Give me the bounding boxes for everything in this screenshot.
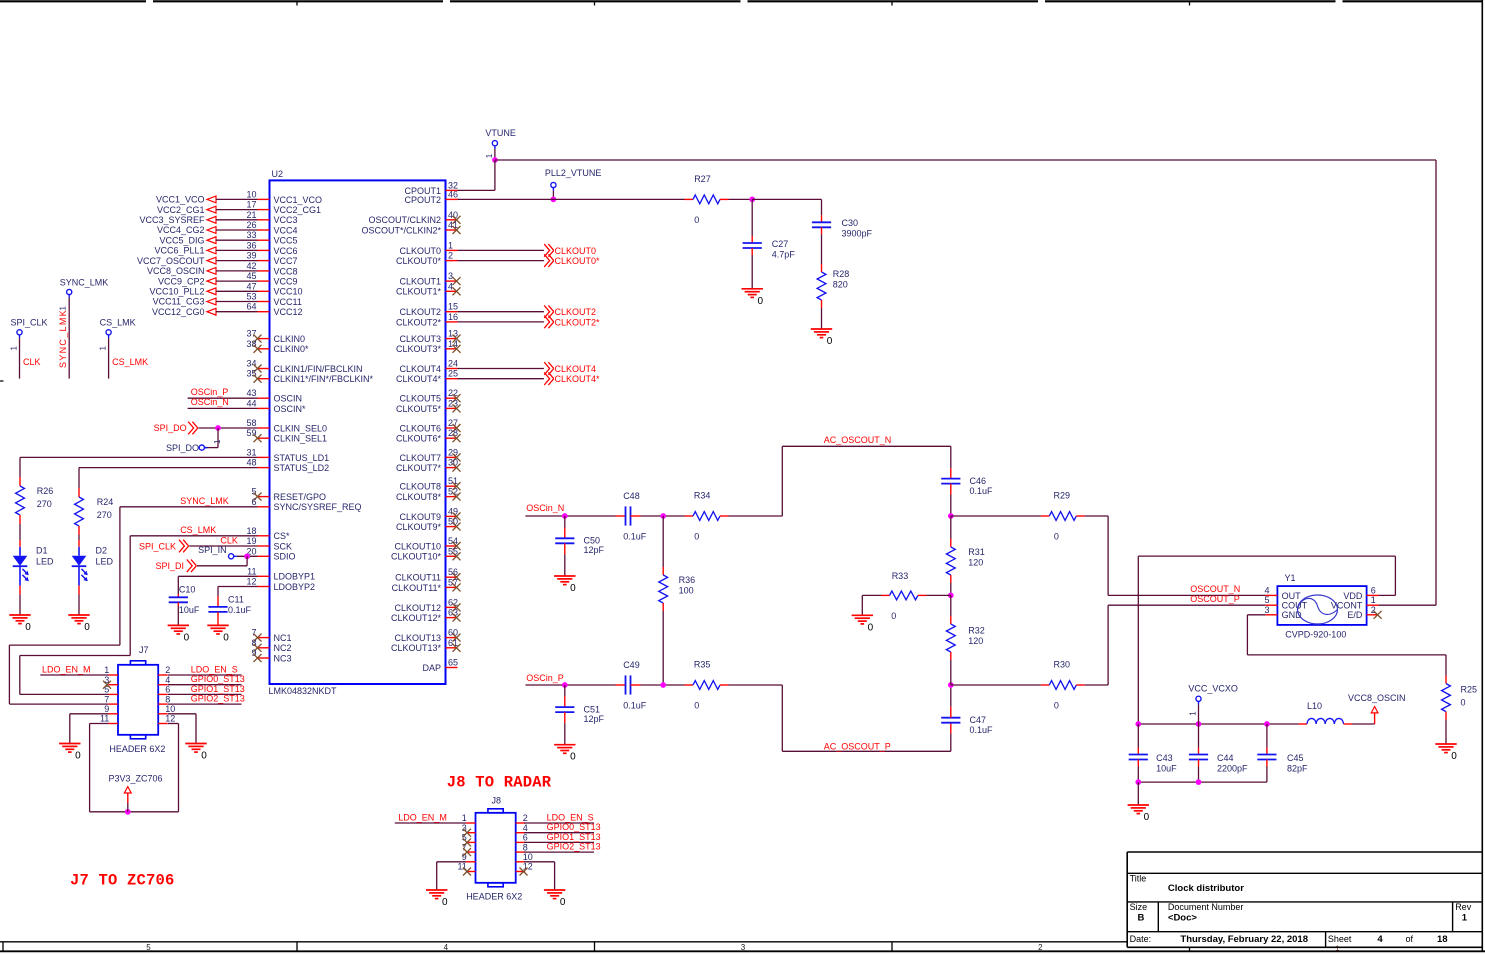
- svg-text:43: 43: [246, 388, 256, 398]
- svg-text:CLKIN1*/FIN*/FBCLKIN*: CLKIN1*/FIN*/FBCLKIN*: [274, 374, 374, 384]
- svg-text:LDO_EN_S: LDO_EN_S: [191, 664, 238, 674]
- svg-text:2200pF: 2200pF: [1217, 764, 1248, 774]
- svg-text:0: 0: [1054, 532, 1059, 542]
- svg-text:CLKOUT12*: CLKOUT12*: [391, 613, 442, 623]
- svg-text:1: 1: [9, 346, 18, 351]
- svg-text:VCC3_SYSREF: VCC3_SYSREF: [139, 215, 205, 225]
- svg-text:U2: U2: [272, 169, 284, 179]
- svg-text:CLKOUT0: CLKOUT0: [555, 246, 597, 256]
- svg-text:100: 100: [679, 585, 694, 595]
- svg-text:0: 0: [827, 336, 833, 347]
- svg-text:GPIO2_ST13: GPIO2_ST13: [191, 694, 245, 704]
- svg-text:35: 35: [246, 369, 256, 379]
- svg-text:CS_LMK: CS_LMK: [180, 525, 216, 535]
- svg-text:58: 58: [246, 418, 256, 428]
- svg-text:2: 2: [523, 813, 528, 823]
- svg-text:56: 56: [448, 567, 458, 577]
- svg-text:HEADER 6X2: HEADER 6X2: [109, 744, 165, 754]
- svg-text:CVPD-920-100: CVPD-920-100: [1285, 630, 1346, 640]
- svg-text:270: 270: [37, 499, 52, 509]
- svg-text:C50: C50: [584, 536, 601, 546]
- svg-text:0: 0: [1461, 697, 1466, 707]
- svg-text:DAP: DAP: [422, 663, 441, 673]
- svg-text:0: 0: [694, 532, 699, 542]
- svg-text:VCC_VCXO: VCC_VCXO: [1188, 683, 1238, 693]
- svg-text:SYNC_LMK: SYNC_LMK: [58, 309, 68, 368]
- svg-text:21: 21: [246, 210, 256, 220]
- svg-text:Thursday, February 22, 2018: Thursday, February 22, 2018: [1180, 934, 1308, 945]
- svg-text:CLKOUT8: CLKOUT8: [399, 482, 441, 492]
- svg-text:52: 52: [448, 487, 458, 497]
- svg-text:E/D: E/D: [1347, 610, 1363, 620]
- svg-text:R25: R25: [1461, 685, 1478, 695]
- svg-text:42: 42: [246, 261, 256, 271]
- svg-text:11: 11: [247, 566, 256, 576]
- svg-text:0: 0: [758, 296, 764, 307]
- svg-text:CS_LMK: CS_LMK: [112, 357, 148, 367]
- svg-text:CLKOUT1: CLKOUT1: [399, 277, 441, 287]
- svg-text:4: 4: [444, 943, 449, 952]
- svg-text:0: 0: [25, 622, 31, 633]
- svg-text:R33: R33: [892, 571, 909, 581]
- svg-text:PLL2_VTUNE: PLL2_VTUNE: [545, 168, 602, 178]
- svg-text:3900pF: 3900pF: [842, 228, 873, 238]
- svg-text:LDOBYP2: LDOBYP2: [274, 582, 316, 592]
- svg-text:4: 4: [165, 675, 170, 685]
- svg-text:48: 48: [246, 458, 256, 468]
- svg-text:33: 33: [246, 230, 256, 240]
- svg-text:J8: J8: [492, 796, 502, 806]
- svg-text:CLKOUT12: CLKOUT12: [394, 603, 441, 613]
- svg-text:4: 4: [523, 823, 528, 833]
- svg-text:OSCin_N: OSCin_N: [526, 503, 564, 513]
- svg-text:31: 31: [246, 447, 256, 457]
- svg-text:SPI_CLK: SPI_CLK: [139, 541, 176, 551]
- svg-text:C10: C10: [179, 585, 196, 595]
- svg-text:0.1uF: 0.1uF: [623, 701, 647, 711]
- svg-text:34: 34: [246, 359, 256, 369]
- svg-text:6: 6: [523, 833, 528, 843]
- svg-text:0.1uF: 0.1uF: [970, 486, 994, 496]
- svg-text:120: 120: [968, 636, 983, 646]
- svg-text:23: 23: [448, 398, 458, 408]
- svg-text:37: 37: [246, 329, 256, 339]
- svg-text:OSCin_P: OSCin_P: [526, 673, 564, 683]
- svg-text:1: 1: [1188, 711, 1197, 716]
- svg-text:65: 65: [448, 658, 458, 668]
- svg-text:7: 7: [104, 694, 109, 704]
- svg-text:30: 30: [448, 458, 458, 468]
- svg-text:1: 1: [104, 665, 109, 675]
- svg-text:1: 1: [462, 813, 467, 823]
- svg-text:SYNC_LMK: SYNC_LMK: [60, 278, 109, 288]
- svg-text:R31: R31: [968, 547, 985, 557]
- svg-text:CLKIN0: CLKIN0: [274, 334, 306, 344]
- svg-text:0: 0: [570, 752, 576, 763]
- svg-text:OSCOUT_P: OSCOUT_P: [1190, 594, 1240, 604]
- svg-text:SPI_CLK: SPI_CLK: [11, 318, 48, 328]
- svg-text:OSCOUT*/CLKIN2*: OSCOUT*/CLKIN2*: [361, 225, 441, 235]
- svg-text:4: 4: [1377, 934, 1383, 945]
- svg-text:16: 16: [448, 312, 458, 322]
- svg-text:Size: Size: [1130, 902, 1148, 912]
- svg-text:C11: C11: [228, 595, 244, 605]
- svg-text:Document Number: Document Number: [1168, 902, 1244, 912]
- svg-text:49: 49: [448, 506, 458, 516]
- svg-text:CLKOUT5*: CLKOUT5*: [396, 404, 442, 414]
- svg-text:OSCIN: OSCIN: [274, 394, 303, 404]
- svg-text:VCC10: VCC10: [274, 287, 303, 297]
- svg-text:VCC1_VCO: VCC1_VCO: [274, 195, 323, 205]
- svg-text:SPI_DI: SPI_DI: [155, 561, 184, 571]
- svg-text:0: 0: [184, 632, 190, 643]
- svg-text:8: 8: [165, 694, 170, 704]
- svg-text:Clock distributor: Clock distributor: [1168, 883, 1244, 894]
- svg-text:0.1uF: 0.1uF: [970, 725, 994, 735]
- svg-text:NC1: NC1: [274, 633, 292, 643]
- svg-text:VCC6: VCC6: [274, 246, 298, 256]
- svg-text:VCC8: VCC8: [274, 266, 298, 276]
- svg-text:0: 0: [1451, 751, 1457, 762]
- svg-text:CLKIN_SEL0: CLKIN_SEL0: [274, 423, 328, 433]
- svg-text:STATUS_LD1: STATUS_LD1: [274, 453, 330, 463]
- svg-text:SPI_DO: SPI_DO: [166, 443, 199, 453]
- svg-text:COUT: COUT: [1282, 601, 1308, 611]
- svg-text:CLKIN0*: CLKIN0*: [274, 344, 310, 354]
- svg-text:Rev: Rev: [1455, 902, 1472, 912]
- svg-text:VCC10_PLL2: VCC10_PLL2: [149, 287, 204, 297]
- svg-text:R28: R28: [833, 269, 850, 279]
- svg-text:270: 270: [97, 510, 112, 520]
- svg-text:820: 820: [833, 279, 848, 289]
- svg-text:CLKOUT0*: CLKOUT0*: [396, 256, 442, 266]
- svg-text:of: of: [1406, 934, 1414, 944]
- svg-text:6: 6: [251, 497, 256, 507]
- svg-text:LDO_EN_S: LDO_EN_S: [547, 812, 594, 822]
- svg-text:1: 1: [213, 439, 222, 444]
- svg-text:18: 18: [246, 526, 256, 536]
- svg-text:SCK: SCK: [274, 541, 293, 551]
- svg-text:STATUS_LD2: STATUS_LD2: [274, 463, 330, 473]
- svg-text:14: 14: [448, 339, 458, 349]
- svg-text:40: 40: [448, 210, 458, 220]
- svg-text:C51: C51: [584, 704, 601, 714]
- svg-text:VTUNE: VTUNE: [485, 128, 516, 138]
- svg-text:3: 3: [741, 943, 746, 952]
- svg-text:82pF: 82pF: [1287, 764, 1308, 774]
- svg-text:CLKOUT10*: CLKOUT10*: [391, 552, 442, 562]
- svg-text:VCC5: VCC5: [274, 236, 298, 246]
- svg-text:CLKOUT8*: CLKOUT8*: [396, 492, 442, 502]
- svg-text:0: 0: [223, 632, 229, 643]
- svg-text:R35: R35: [694, 660, 711, 670]
- svg-text:19: 19: [246, 536, 256, 546]
- svg-text:GPIO2_ST13: GPIO2_ST13: [547, 842, 601, 852]
- svg-text:CLKOUT9*: CLKOUT9*: [396, 522, 442, 532]
- svg-text:SDIO: SDIO: [274, 552, 296, 562]
- svg-text:64: 64: [246, 302, 256, 312]
- svg-text:CLKOUT13*: CLKOUT13*: [391, 643, 442, 653]
- svg-text:CLKOUT5: CLKOUT5: [399, 394, 441, 404]
- svg-text:OSCIN*: OSCIN*: [274, 404, 307, 414]
- svg-text:12pF: 12pF: [584, 545, 605, 555]
- svg-text:13: 13: [448, 329, 458, 339]
- svg-text:61: 61: [448, 638, 458, 648]
- svg-text:120: 120: [968, 557, 983, 567]
- svg-text:SYNC_LMK: SYNC_LMK: [180, 496, 229, 506]
- svg-text:CLKIN_SEL1: CLKIN_SEL1: [274, 434, 328, 444]
- svg-text:4.7pF: 4.7pF: [772, 249, 796, 259]
- svg-text:CLKOUT7: CLKOUT7: [399, 453, 441, 463]
- svg-text:C46: C46: [970, 476, 987, 486]
- svg-text:Sheet: Sheet: [1328, 934, 1352, 944]
- svg-text:CPOUT2: CPOUT2: [404, 195, 441, 205]
- svg-text:NC3: NC3: [274, 653, 292, 663]
- svg-text:0: 0: [868, 622, 874, 633]
- svg-text:CLKOUT2: CLKOUT2: [555, 307, 597, 317]
- svg-text:0: 0: [694, 701, 699, 711]
- svg-text:VCC2_CG1: VCC2_CG1: [157, 205, 205, 215]
- svg-text:CLKOUT11*: CLKOUT11*: [392, 583, 442, 593]
- svg-text:1: 1: [1371, 595, 1376, 605]
- svg-text:15: 15: [448, 302, 458, 312]
- svg-text:R26: R26: [37, 486, 54, 496]
- svg-text:CLKOUT11: CLKOUT11: [395, 573, 441, 583]
- svg-text:GND: GND: [1282, 610, 1303, 620]
- svg-text:J7: J7: [139, 645, 149, 655]
- svg-text:5: 5: [146, 943, 151, 952]
- svg-text:R29: R29: [1054, 491, 1071, 501]
- svg-text:38: 38: [246, 339, 256, 349]
- svg-text:R27: R27: [694, 174, 711, 184]
- svg-text:0: 0: [442, 897, 448, 908]
- svg-text:C30: C30: [842, 218, 859, 228]
- svg-text:4: 4: [448, 281, 453, 291]
- svg-text:6: 6: [165, 685, 170, 695]
- svg-text:28: 28: [448, 428, 458, 438]
- svg-text:3: 3: [448, 271, 453, 281]
- svg-text:RESET/GPO: RESET/GPO: [274, 492, 327, 502]
- svg-text:NC2: NC2: [274, 643, 292, 653]
- svg-text:CS_LMK: CS_LMK: [100, 318, 136, 328]
- svg-text:CLKOUT7*: CLKOUT7*: [396, 463, 442, 473]
- svg-text:CLKOUT9: CLKOUT9: [399, 512, 441, 522]
- svg-text:9: 9: [104, 704, 109, 714]
- svg-text:2: 2: [165, 665, 170, 675]
- svg-text:46: 46: [448, 189, 458, 199]
- svg-text:53: 53: [246, 292, 256, 302]
- svg-text:1: 1: [448, 240, 453, 250]
- svg-text:VCC11_CG3: VCC11_CG3: [153, 297, 205, 307]
- svg-text:VCC3: VCC3: [274, 215, 298, 225]
- svg-text:R36: R36: [679, 575, 696, 585]
- svg-text:VCC9: VCC9: [274, 277, 298, 287]
- svg-text:0: 0: [75, 751, 81, 762]
- svg-text:0: 0: [1054, 701, 1059, 711]
- svg-text:OSCOUT_N: OSCOUT_N: [1190, 584, 1240, 594]
- svg-text:R32: R32: [968, 626, 985, 636]
- svg-text:50: 50: [448, 517, 458, 527]
- svg-text:CLKIN1/FIN/FBCLKIN: CLKIN1/FIN/FBCLKIN: [274, 364, 363, 374]
- svg-text:39: 39: [246, 251, 256, 261]
- svg-text:Date:: Date:: [1130, 934, 1152, 944]
- svg-text:CLKOUT0: CLKOUT0: [399, 246, 441, 256]
- svg-text:C49: C49: [623, 660, 640, 670]
- svg-text:45: 45: [246, 271, 256, 281]
- svg-text:C45: C45: [1287, 753, 1304, 763]
- svg-text:0: 0: [1144, 812, 1150, 823]
- svg-text:CLKOUT2*: CLKOUT2*: [555, 317, 601, 327]
- svg-text:VCC8_OSCIN: VCC8_OSCIN: [1348, 693, 1406, 703]
- svg-text:D1: D1: [36, 545, 48, 555]
- svg-text:59: 59: [246, 428, 256, 438]
- svg-text:CLKOUT2*: CLKOUT2*: [396, 317, 442, 327]
- svg-text:VCC9_CP2: VCC9_CP2: [158, 276, 205, 286]
- svg-text:0: 0: [201, 751, 207, 762]
- svg-text:0: 0: [891, 611, 896, 621]
- svg-text:60: 60: [448, 628, 458, 638]
- svg-text:LDOBYP1: LDOBYP1: [274, 572, 316, 582]
- svg-text:63: 63: [448, 608, 458, 618]
- svg-text:CLKOUT3*: CLKOUT3*: [396, 344, 442, 354]
- svg-text:10: 10: [165, 704, 175, 714]
- svg-text:24: 24: [448, 359, 458, 369]
- svg-text:CLKOUT1*: CLKOUT1*: [396, 287, 442, 297]
- svg-text:VCC7: VCC7: [274, 256, 298, 266]
- svg-text:CLKOUT4: CLKOUT4: [399, 364, 441, 374]
- svg-text:CLKOUT4: CLKOUT4: [555, 364, 597, 374]
- svg-text:1: 1: [58, 306, 67, 311]
- svg-text:OSCOUT/CLKIN2: OSCOUT/CLKIN2: [368, 215, 441, 225]
- svg-text:CLK: CLK: [23, 357, 41, 367]
- svg-text:17: 17: [246, 200, 256, 210]
- svg-text:B: B: [1138, 912, 1145, 923]
- svg-text:R24: R24: [97, 497, 114, 507]
- svg-text:8: 8: [523, 842, 528, 852]
- svg-text:CLKOUT13: CLKOUT13: [394, 633, 441, 643]
- svg-text:18: 18: [1437, 934, 1448, 945]
- svg-text:GPIO0_ST13: GPIO0_ST13: [191, 674, 245, 684]
- svg-text:VCC7_OSCOUT: VCC7_OSCOUT: [137, 256, 205, 266]
- svg-text:VCC1_VCO: VCC1_VCO: [156, 195, 205, 205]
- svg-text:0: 0: [694, 215, 699, 225]
- svg-text:VDD: VDD: [1343, 591, 1363, 601]
- svg-text:AC_OSCOUT_P: AC_OSCOUT_P: [824, 742, 891, 752]
- svg-text:CLKOUT0*: CLKOUT0*: [555, 256, 601, 266]
- svg-text:3: 3: [1264, 605, 1269, 615]
- svg-text:5: 5: [1264, 595, 1269, 605]
- svg-text:12: 12: [165, 714, 175, 724]
- svg-text:CLKOUT6*: CLKOUT6*: [396, 434, 442, 444]
- svg-text:CLKOUT4*: CLKOUT4*: [555, 374, 601, 384]
- svg-text:VCONT: VCONT: [1331, 601, 1363, 611]
- svg-text:OSCin_N: OSCin_N: [191, 397, 229, 407]
- svg-text:2: 2: [1371, 605, 1376, 615]
- svg-text:1: 1: [98, 346, 107, 351]
- svg-text:SYNC/SYSREF_REQ: SYNC/SYSREF_REQ: [274, 502, 362, 512]
- svg-text:VCC4: VCC4: [274, 225, 298, 235]
- svg-text:VCC8_OSCIN: VCC8_OSCIN: [147, 266, 205, 276]
- svg-text:C27: C27: [772, 239, 789, 249]
- svg-text:26: 26: [246, 220, 256, 230]
- svg-text:L10: L10: [1307, 701, 1322, 711]
- svg-text:CLKOUT3: CLKOUT3: [399, 334, 441, 344]
- svg-text:C44: C44: [1217, 753, 1234, 763]
- svg-text:VCC12: VCC12: [274, 307, 303, 317]
- svg-text:55: 55: [448, 546, 458, 556]
- svg-text:J8 TO RADAR: J8 TO RADAR: [447, 774, 552, 792]
- svg-text:36: 36: [246, 240, 256, 250]
- svg-text:0: 0: [560, 897, 566, 908]
- svg-text:R30: R30: [1054, 660, 1071, 670]
- svg-text:D2: D2: [96, 545, 108, 555]
- svg-text:VCC12_CG0: VCC12_CG0: [152, 307, 205, 317]
- svg-text:CLKOUT10: CLKOUT10: [394, 541, 441, 551]
- svg-text:Title: Title: [1130, 874, 1147, 884]
- svg-text:GPIO1_ST13: GPIO1_ST13: [191, 684, 245, 694]
- svg-text:0.1uF: 0.1uF: [228, 605, 252, 615]
- svg-text:4: 4: [1264, 585, 1269, 595]
- svg-text:2: 2: [448, 251, 453, 261]
- svg-text:VCC5_DIG: VCC5_DIG: [159, 235, 204, 245]
- svg-text:GPIO0_ST13: GPIO0_ST13: [547, 822, 601, 832]
- svg-text:AC_OSCOUT_N: AC_OSCOUT_N: [824, 435, 892, 445]
- svg-text:1: 1: [485, 153, 494, 158]
- svg-text:62: 62: [448, 597, 458, 607]
- svg-text:11: 11: [100, 714, 109, 724]
- svg-text:12: 12: [246, 577, 256, 587]
- svg-text:0.1uF: 0.1uF: [623, 532, 647, 542]
- svg-text:47: 47: [246, 281, 256, 291]
- svg-text:P3V3_ZC706: P3V3_ZC706: [109, 774, 163, 784]
- svg-text:10uF: 10uF: [1156, 764, 1177, 774]
- svg-text:10: 10: [523, 852, 533, 862]
- svg-text:1: 1: [1462, 912, 1468, 923]
- svg-text:<Doc>: <Doc>: [1168, 912, 1197, 923]
- svg-text:12pF: 12pF: [584, 714, 605, 724]
- svg-text:GPIO1_ST13: GPIO1_ST13: [547, 832, 601, 842]
- svg-text:27: 27: [448, 418, 458, 428]
- svg-text:LDO_EN_M: LDO_EN_M: [42, 664, 91, 674]
- svg-text:CS*: CS*: [274, 531, 291, 541]
- svg-text:LMK04832NKDT: LMK04832NKDT: [269, 686, 338, 696]
- svg-text:LDO_EN_M: LDO_EN_M: [398, 812, 447, 822]
- svg-text:SPI_IN: SPI_IN: [198, 545, 227, 555]
- svg-text:C48: C48: [623, 491, 640, 501]
- svg-text:LED: LED: [96, 556, 114, 566]
- svg-text:HEADER 6X2: HEADER 6X2: [466, 892, 522, 902]
- svg-text:CLKOUT2: CLKOUT2: [399, 307, 441, 317]
- svg-text:OUT: OUT: [1282, 591, 1302, 601]
- svg-text:VCC11: VCC11: [274, 297, 302, 307]
- svg-text:54: 54: [448, 536, 458, 546]
- svg-text:25: 25: [448, 369, 458, 379]
- svg-text:10: 10: [246, 189, 256, 199]
- svg-text:CLKOUT6: CLKOUT6: [399, 423, 441, 433]
- svg-text:57: 57: [448, 577, 458, 587]
- svg-text:Y1: Y1: [1285, 573, 1296, 583]
- svg-text:41: 41: [448, 220, 458, 230]
- svg-text:C47: C47: [970, 715, 987, 725]
- svg-text:2: 2: [1038, 943, 1043, 952]
- svg-text:CLKOUT4*: CLKOUT4*: [396, 374, 442, 384]
- svg-text:22: 22: [448, 388, 458, 398]
- svg-text:51: 51: [448, 476, 458, 486]
- svg-text:VCC2_CG1: VCC2_CG1: [274, 205, 322, 215]
- svg-text:0: 0: [570, 583, 576, 594]
- svg-text:R34: R34: [694, 491, 711, 501]
- svg-text:VCC6_PLL1: VCC6_PLL1: [154, 246, 204, 256]
